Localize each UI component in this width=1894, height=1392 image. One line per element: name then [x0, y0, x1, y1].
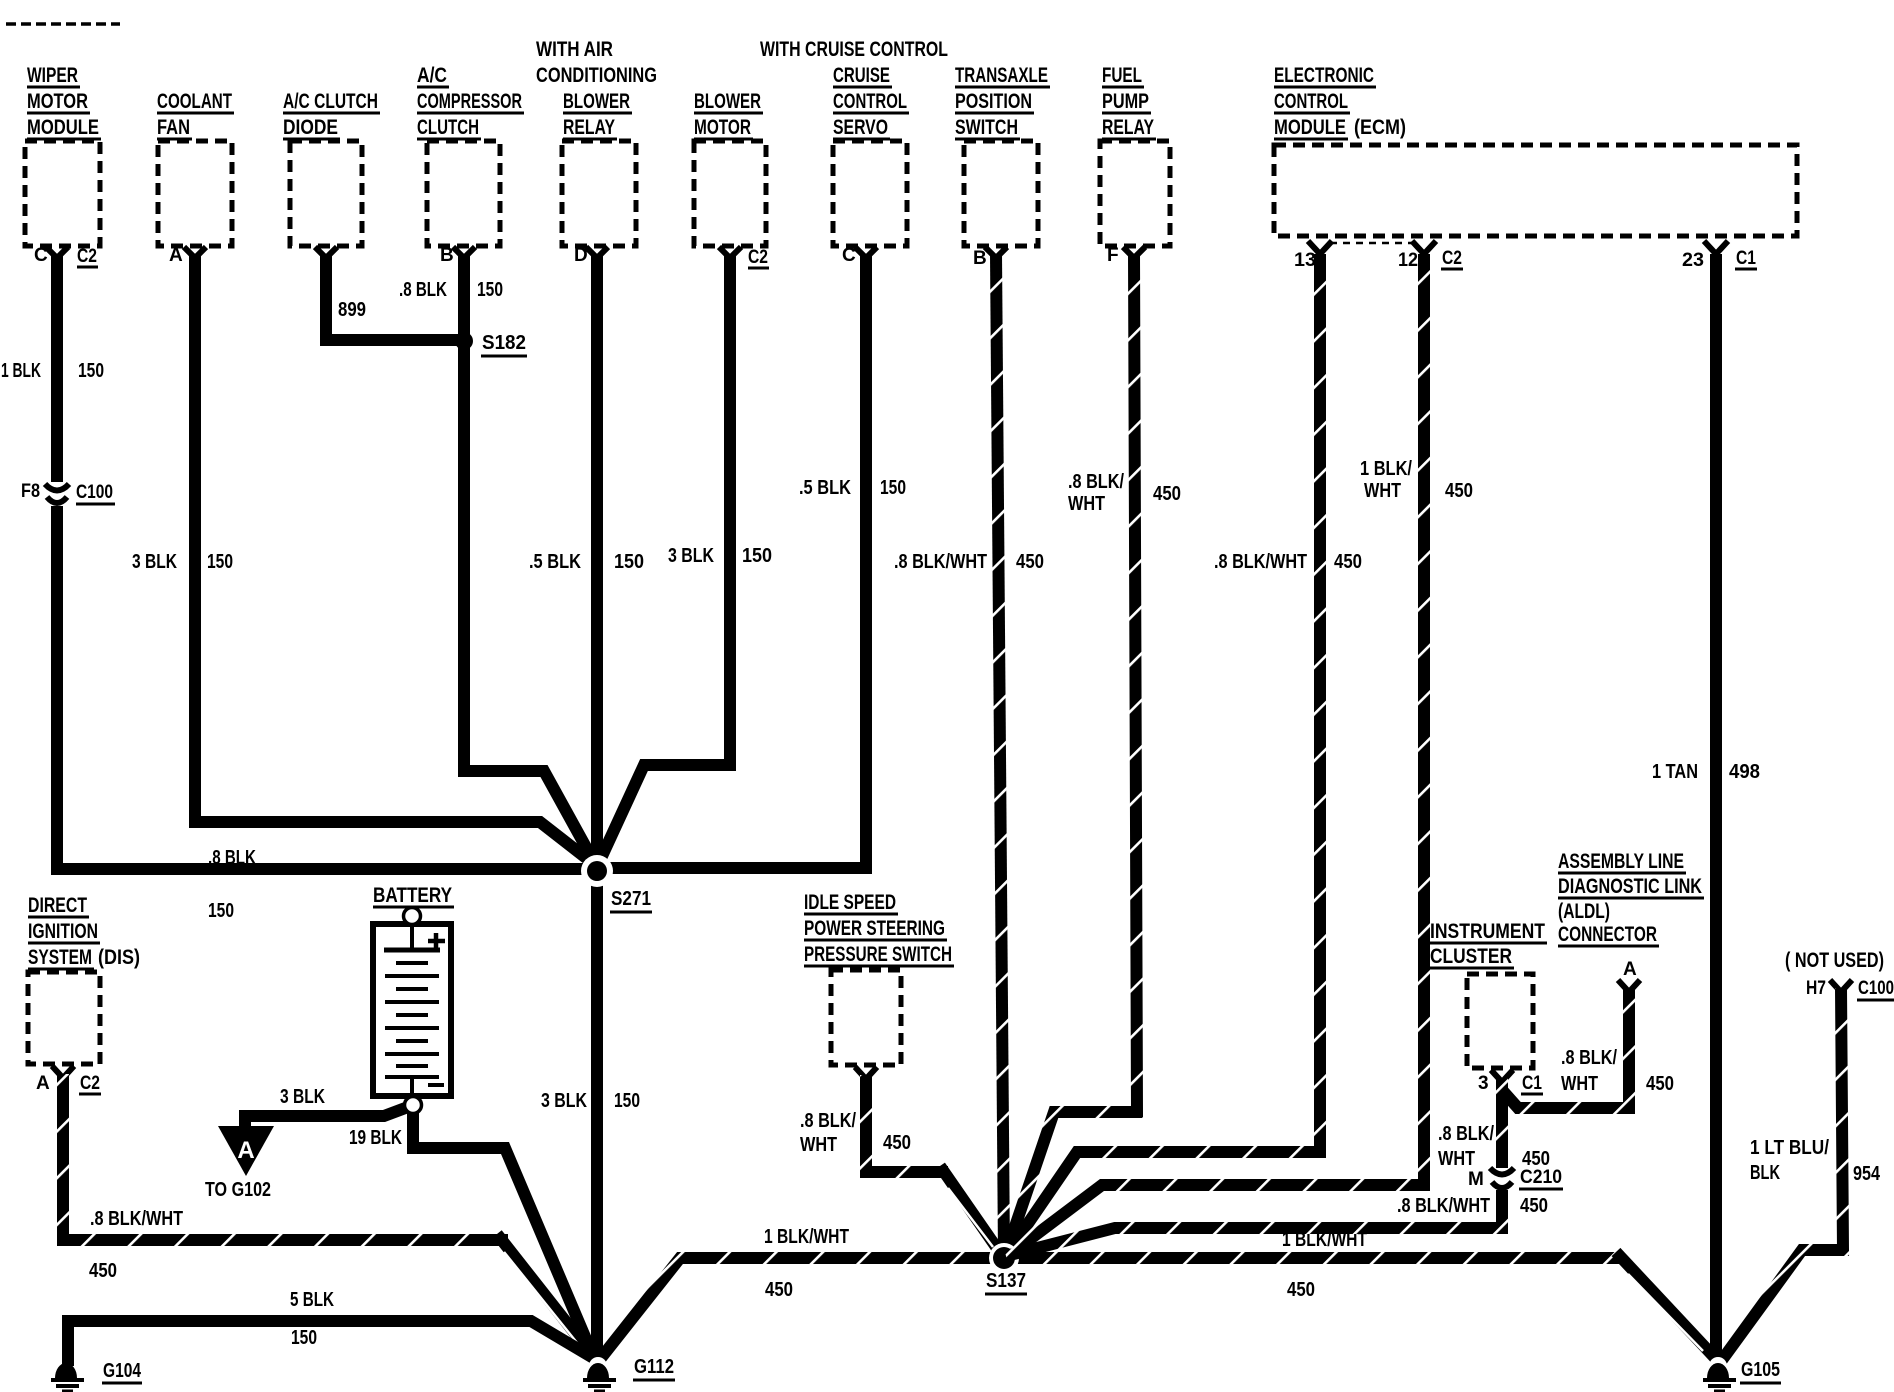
svg-text:MODULE: MODULE: [1274, 115, 1346, 139]
svg-text:498: 498: [1729, 761, 1760, 783]
svg-text:150: 150: [742, 545, 772, 567]
svg-text:DIAGNOSTIC LINK: DIAGNOSTIC LINK: [1558, 874, 1702, 898]
svg-text:3: 3: [1478, 1073, 1489, 1094]
svg-text:B: B: [973, 248, 987, 269]
svg-text:PUMP: PUMP: [1102, 89, 1149, 113]
wire: 1 BLK 150 from wiper C down to C100: [51, 254, 63, 482]
svg-text:.8 BLK/WHT: .8 BLK/WHT: [894, 551, 987, 573]
svg-text:13: 13: [1294, 250, 1316, 271]
svg-text:450: 450: [1445, 480, 1473, 502]
svg-text:H7: H7: [1806, 978, 1826, 999]
wire: .8 BLK 150 from a/c compressor clutch B through S182 to S271: [464, 254, 598, 869]
svg-text:.5 BLK: .5 BLK: [799, 477, 851, 499]
pin of idle speed power steering pressure switch: [855, 1067, 877, 1079]
svg-text:.8 BLK/: .8 BLK/: [1068, 471, 1124, 493]
svg-text:RELAY: RELAY: [563, 115, 615, 139]
svg-text:(DIS): (DIS): [98, 945, 140, 969]
svg-text:450: 450: [1520, 1195, 1548, 1217]
junction S182: [455, 332, 527, 356]
wire: 3 BLK 150 from blower motor C2 to S271: [597, 254, 730, 867]
pin of a/c clutch diode: [315, 247, 337, 258]
wire: 1 TAN 498 from ECM pin 23 to G105: [1710, 254, 1722, 1362]
connector box: direct ignition system (DIS): [28, 893, 140, 1064]
wire: .8 BLK/WHT 450 from ECM pin 13 to S137: [1005, 254, 1320, 1257]
svg-text:COOLANT: COOLANT: [157, 89, 232, 113]
svg-text:IGNITION: IGNITION: [28, 919, 98, 943]
pin A of ALDL connector: [1618, 959, 1640, 992]
svg-text:450: 450: [1287, 1279, 1315, 1301]
svg-text:G104: G104: [103, 1360, 142, 1382]
connector box: blower relay (with air conditioning): [536, 37, 657, 246]
connector box: wiper motor module: [25, 63, 101, 246]
svg-text:CONTROL: CONTROL: [1274, 89, 1348, 113]
pin B of a/c compressor clutch: [440, 245, 475, 266]
svg-text:C210: C210: [1520, 1167, 1562, 1188]
svg-text:150: 150: [614, 1090, 640, 1112]
svg-text:12: 12: [1398, 250, 1418, 271]
wire: 5 BLK 150 from G104 to G112: [68, 1321, 595, 1366]
svg-text:POSITION: POSITION: [955, 89, 1032, 113]
svg-text:.8 BLK/: .8 BLK/: [800, 1110, 856, 1132]
top-left partial dashed line: [6, 22, 120, 26]
connector box: cruise control servo (with cruise control): [760, 37, 948, 246]
svg-text:SWITCH: SWITCH: [955, 115, 1018, 139]
svg-text:150: 150: [614, 551, 644, 573]
svg-text:1 LT BLU/: 1 LT BLU/: [1750, 1137, 1829, 1159]
pin C2 of blower motor: [719, 247, 769, 268]
pin H7 of connector C100 (not used): [1806, 978, 1894, 1000]
wire: 1 BLK/WHT 450 from G112 to S137: [601, 1258, 1004, 1358]
svg-text:150: 150: [78, 360, 104, 382]
wire: .5 BLK 150 from blower relay D down through S271 to G112 (3 BLK 150 below): [591, 254, 603, 1360]
svg-text:(ALDL): (ALDL): [1558, 899, 1610, 923]
svg-text:FAN: FAN: [157, 115, 190, 139]
svg-text:150: 150: [208, 900, 234, 922]
svg-text:CONTROL: CONTROL: [833, 89, 907, 113]
svg-text:C2: C2: [748, 247, 768, 268]
ECM pin 23 (connector C1): [1682, 241, 1757, 271]
ground G104: [51, 1360, 142, 1391]
svg-text:C100: C100: [76, 482, 113, 503]
svg-text:1 BLK: 1 BLK: [1, 360, 41, 382]
connector box: transaxle position switch: [955, 63, 1050, 246]
svg-text:SERVO: SERVO: [833, 115, 888, 139]
svg-text:WHT: WHT: [1438, 1148, 1475, 1170]
wire: 899 from a/c clutch diode to S182: [326, 254, 462, 340]
wire: 1 BLK/WHT 450 from ECM pin 12 to S137: [1005, 254, 1424, 1258]
svg-text:450: 450: [883, 1132, 911, 1154]
svg-text:MODULE: MODULE: [27, 115, 99, 139]
svg-text:A: A: [169, 245, 183, 266]
svg-text:3 BLK: 3 BLK: [668, 545, 714, 567]
pin 3 of instrument cluster (connector C1): [1478, 1070, 1543, 1094]
connector box: coolant fan: [157, 89, 234, 246]
svg-text:A: A: [1623, 959, 1637, 980]
svg-text:WIPER: WIPER: [27, 63, 78, 87]
wire: .8 BLK/WHT 450 from transaxle position switch B to S137: [996, 254, 1004, 1256]
svg-text:ASSEMBLY LINE: ASSEMBLY LINE: [1558, 849, 1684, 873]
svg-text:3 BLK: 3 BLK: [541, 1090, 587, 1112]
svg-text:.8 BLK/WHT: .8 BLK/WHT: [1397, 1195, 1490, 1217]
wire: 19 BLK from battery negative to G112: [413, 1107, 594, 1358]
ground G105: [1703, 1357, 1781, 1391]
svg-text:899: 899: [338, 299, 366, 321]
svg-text:954: 954: [1853, 1163, 1881, 1185]
svg-text:.8 BLK: .8 BLK: [399, 279, 447, 301]
svg-text:BATTERY: BATTERY: [373, 883, 452, 907]
connector box: a/c compressor clutch: [417, 63, 524, 246]
svg-text:ELECTRONIC: ELECTRONIC: [1274, 63, 1374, 87]
svg-text:MOTOR: MOTOR: [27, 89, 88, 113]
pin B of transaxle position switch: [973, 247, 1007, 269]
svg-text:.8 BLK/WHT: .8 BLK/WHT: [1214, 551, 1307, 573]
svg-text:F: F: [1107, 245, 1119, 266]
wire: 3 BLK from battery negative to triangle A (TO G102): [245, 1107, 408, 1128]
svg-text:COMPRESSOR: COMPRESSOR: [417, 89, 522, 113]
svg-text:C2: C2: [77, 246, 97, 267]
connector C210 (pin M) in-line: [1468, 1167, 1563, 1190]
svg-text:G112: G112: [634, 1356, 674, 1378]
svg-text:S271: S271: [611, 888, 651, 910]
wire: .8 BLK/WHT 450 from pressure switch to S137: [866, 1075, 948, 1172]
svg-text:.8 BLK/: .8 BLK/: [1561, 1047, 1617, 1069]
pin A of DIS (connector C2): [36, 1066, 101, 1094]
svg-text:C2: C2: [80, 1073, 100, 1094]
wire: 3 BLK 150 from coolant fan A to S271: [195, 254, 599, 868]
svg-text:450: 450: [89, 1260, 117, 1282]
svg-text:RELAY: RELAY: [1102, 115, 1154, 139]
svg-text:CLUTCH: CLUTCH: [417, 115, 479, 139]
ECM pin 13: [1294, 241, 1332, 271]
svg-text:WHT: WHT: [1068, 493, 1105, 515]
pin C of wiper motor module: [34, 245, 98, 267]
wire: 1 BLK 150 from C100 down then right to S271: [57, 506, 597, 869]
svg-text:MOTOR: MOTOR: [694, 115, 751, 139]
wire: .5 BLK 150 from cruise control servo C to S271: [597, 254, 866, 868]
svg-text:A/C: A/C: [417, 63, 447, 87]
pin D of blower relay: [574, 245, 608, 266]
svg-text:C100: C100: [1858, 978, 1894, 999]
connector box: blower motor: [694, 89, 766, 246]
svg-text:450: 450: [1153, 483, 1181, 505]
connector box: idle speed power steering pressure switch: [804, 890, 954, 1065]
svg-text:150: 150: [291, 1327, 317, 1349]
off-page triangle A to G102: [205, 1126, 274, 1201]
svg-text:WHT: WHT: [1364, 480, 1401, 502]
svg-text:450: 450: [1334, 551, 1362, 573]
wire: 1 LT BLU/BLK 954 from H7 to G105: [1722, 988, 1843, 1360]
svg-text:5 BLK: 5 BLK: [290, 1289, 334, 1311]
svg-text:B: B: [440, 245, 454, 266]
svg-text:1 BLK/: 1 BLK/: [1360, 458, 1412, 480]
svg-text:C2: C2: [1442, 248, 1462, 269]
svg-text:C1: C1: [1736, 248, 1756, 269]
svg-text:CONNECTOR: CONNECTOR: [1558, 922, 1657, 946]
svg-text:450: 450: [765, 1279, 793, 1301]
ECM pin 12 (connector C2): [1398, 241, 1463, 271]
svg-text:M: M: [1468, 1169, 1484, 1190]
svg-text:F8: F8: [21, 481, 40, 502]
svg-text:.8 BLK: .8 BLK: [208, 847, 256, 869]
pin F of fuel pump relay: [1107, 245, 1145, 266]
svg-text:INSTRUMENT: INSTRUMENT: [1430, 919, 1545, 943]
svg-text:3 BLK: 3 BLK: [132, 551, 177, 573]
svg-text:PRESSURE SWITCH: PRESSURE SWITCH: [804, 942, 952, 966]
svg-text:WITH AIR: WITH AIR: [536, 37, 613, 61]
connector box: instrument cluster: [1430, 919, 1547, 1068]
svg-text:1 BLK/WHT: 1 BLK/WHT: [764, 1226, 849, 1248]
connector box label: assembly line diagnostic link (ALDL) connector: [1558, 849, 1704, 946]
svg-text:S182: S182: [482, 332, 526, 354]
svg-text:TO G102: TO G102: [205, 1179, 271, 1201]
svg-text:1 TAN: 1 TAN: [1652, 761, 1698, 783]
wire: 1 BLK/WHT 450 from S137 to G105: [1004, 1252, 1624, 1264]
svg-text:S137: S137: [986, 1270, 1026, 1292]
wire: .8 BLK/WHT 450 from ALDL A to instrument cluster pin 3: [1502, 988, 1629, 1108]
wire: .8 BLK/WHT 450 from DIS A to G112: [63, 1074, 508, 1240]
svg-text:3 BLK: 3 BLK: [280, 1086, 325, 1108]
svg-text:.5 BLK: .5 BLK: [529, 551, 581, 573]
junction S137: [985, 1243, 1027, 1294]
connector box: a/c clutch diode: [283, 89, 380, 246]
wire: .8 BLK/WHT 450 from C210 to S137: [1006, 1190, 1502, 1256]
svg-text:G105: G105: [1741, 1359, 1780, 1381]
svg-text:450: 450: [1646, 1073, 1674, 1095]
pin A of coolant fan: [169, 245, 206, 266]
wire: .8 BLK/WHT 450 from fuel pump relay F to S137: [1005, 254, 1137, 1256]
svg-text:TRANSAXLE: TRANSAXLE: [955, 63, 1048, 87]
svg-text:( NOT USED): ( NOT USED): [1785, 948, 1884, 972]
svg-text:CLUSTER: CLUSTER: [1430, 944, 1512, 968]
svg-text:POWER STEERING: POWER STEERING: [804, 916, 945, 940]
svg-text:BLOWER: BLOWER: [694, 89, 761, 113]
svg-text:23: 23: [1682, 250, 1704, 271]
connector C100 (F8) in-line: [21, 481, 115, 504]
svg-text:.8 BLK/WHT: .8 BLK/WHT: [90, 1208, 183, 1230]
svg-text:IDLE SPEED: IDLE SPEED: [804, 890, 896, 914]
svg-text:150: 150: [880, 477, 906, 499]
svg-text:A/C CLUTCH: A/C CLUTCH: [283, 89, 378, 113]
svg-text:(ECM): (ECM): [1354, 115, 1406, 139]
svg-text:450: 450: [1016, 551, 1044, 573]
wire: .8 BLK/WHT 450 from cluster pin 3 to C210: [1496, 1078, 1508, 1168]
thin dashed line between ECM pins 13 and 12: [1330, 242, 1412, 245]
battery negative terminal circle: [405, 1097, 422, 1114]
pin C of cruise control servo: [842, 245, 877, 266]
svg-text:WITH CRUISE CONTROL: WITH CRUISE CONTROL: [760, 37, 948, 61]
battery BAT1: [373, 883, 454, 1098]
svg-text:19 BLK: 19 BLK: [349, 1127, 402, 1149]
svg-text:DIODE: DIODE: [283, 115, 338, 139]
svg-text:A: A: [237, 1137, 254, 1164]
connector box: fuel pump relay: [1100, 63, 1170, 246]
svg-text:BLK: BLK: [1750, 1162, 1780, 1184]
svg-text:FUEL: FUEL: [1102, 63, 1142, 87]
svg-text:CONDITIONING: CONDITIONING: [536, 63, 657, 87]
svg-text:C1: C1: [1522, 1073, 1542, 1094]
ground G112: [583, 1356, 675, 1391]
svg-text:A: A: [36, 1073, 50, 1094]
svg-text:BLOWER: BLOWER: [563, 89, 630, 113]
svg-text:SYSTEM: SYSTEM: [28, 945, 92, 969]
svg-text:150: 150: [477, 279, 503, 301]
svg-text:WHT: WHT: [800, 1134, 837, 1156]
svg-text:DIRECT: DIRECT: [28, 893, 87, 917]
svg-text:WHT: WHT: [1561, 1073, 1598, 1095]
svg-text:CRUISE: CRUISE: [833, 63, 890, 87]
svg-text:.8 BLK/: .8 BLK/: [1438, 1123, 1494, 1145]
junction S271: [581, 855, 652, 912]
connector box: electronic control module (ECM) U1: [1274, 63, 1797, 236]
svg-text:150: 150: [207, 551, 233, 573]
